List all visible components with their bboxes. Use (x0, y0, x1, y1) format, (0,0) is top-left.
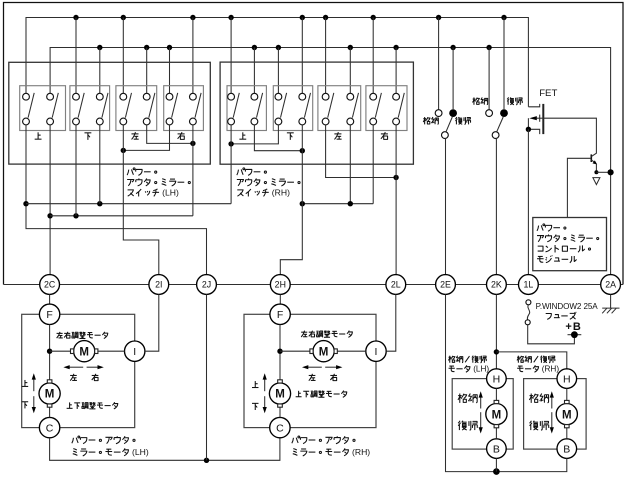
svg-text:M: M (319, 346, 329, 358)
junction bus1 (73, 15, 78, 20)
svg-text:FET: FET (539, 88, 557, 99)
label migi RH motor (330, 374, 337, 381)
junction 2A line (608, 169, 614, 175)
svg-text:F: F (277, 309, 283, 321)
pin F LH (39, 304, 59, 324)
caption switch RH line2 (237, 178, 300, 186)
wire bus1 drop (301, 18, 303, 94)
svg-text:H: H (493, 373, 501, 385)
caption switch RH line1 (237, 168, 267, 176)
junction F-M1 (47, 349, 52, 354)
label sayuu-chousei LH (57, 332, 108, 339)
fuse P.WINDOW2 25A (525, 300, 574, 344)
arrow fold up RH (550, 391, 554, 408)
junction emitter (594, 170, 598, 174)
label module line1 (537, 224, 566, 231)
svg-text:M: M (45, 389, 55, 401)
wire F to C inner (49, 325, 51, 383)
junction bus2 (348, 45, 353, 50)
wire bus2 (50, 48, 611, 275)
arrow up RH (263, 373, 267, 391)
wire bus1 drop (192, 18, 194, 94)
connector 2E (436, 275, 456, 295)
wire F to C inner RH (279, 325, 281, 383)
svg-text:2I: 2I (155, 280, 162, 290)
label shita LH (84, 133, 91, 140)
wire RH down-right to 2H (280, 125, 302, 275)
label hidari RH motor (309, 374, 316, 381)
junction H1 downright (97, 201, 102, 206)
wire bus2 drop 2E-fukki (452, 48, 454, 110)
caption switch LH line3 (128, 187, 179, 197)
label module line3 (538, 245, 591, 252)
label kakunou 2K (472, 97, 487, 104)
ground chassis 2A (602, 294, 619, 313)
wire RH left-left jog to 2L (326, 125, 397, 178)
connector 2A (601, 275, 621, 295)
wire to M1 left RH (280, 350, 313, 352)
pin I RH (366, 341, 386, 361)
wire emitter to 2A line (596, 171, 610, 173)
arrow right RH (325, 365, 342, 369)
fold motor box LH (452, 379, 513, 450)
wire H1b (302, 203, 373, 205)
wire C common (50, 438, 280, 460)
svg-text:P.WINDOW2 25A: P.WINDOW2 25A (536, 302, 599, 311)
arrow left RH (302, 365, 322, 369)
switch S2 LH-down (73, 93, 108, 125)
pin I LH (125, 341, 145, 361)
svg-text:2L: 2L (391, 280, 401, 290)
switch S1 LH-up (23, 93, 59, 125)
junction fold H (494, 349, 499, 354)
wire bus1 drop 2E-kakunou (438, 18, 440, 110)
label jouge-chousei RH (296, 391, 347, 398)
svg-text:2H: 2H (275, 280, 286, 290)
pin C LH (39, 417, 59, 437)
label fukki fold RH (530, 421, 549, 430)
svg-text:B: B (493, 443, 500, 455)
label ue LH (35, 132, 42, 139)
switch fold-2K contacts (486, 109, 508, 138)
wire bus2 drop (146, 48, 148, 94)
switch S4 LH-right (166, 93, 201, 125)
label jouge-chousei LH (67, 402, 118, 409)
outer border frame (4, 3, 624, 285)
transistor Q2 (567, 151, 597, 218)
junction FET source (526, 127, 531, 132)
junction bus2 (276, 45, 281, 50)
label ue RH (239, 132, 246, 139)
wire M to B fold RH (566, 428, 568, 439)
svg-text:C: C (276, 422, 284, 434)
motor M4 RH fold (556, 400, 577, 427)
wire H to M fold LH (495, 388, 497, 400)
caption switch LH line1 (127, 168, 157, 176)
label kakunou fold RH (529, 394, 548, 403)
caption switch RH line3 (237, 187, 290, 197)
wire to M1 left (50, 350, 74, 352)
fold motor box RH (524, 379, 587, 450)
switch box RH-left (318, 86, 361, 131)
pin B RH fold (557, 439, 577, 459)
arrow up LH (32, 373, 36, 391)
wire 2K down (495, 294, 497, 369)
switch S3 LH-left (120, 93, 155, 125)
label shita RH (287, 133, 294, 140)
wire 2K drop (495, 139, 498, 275)
label hidari LH (131, 132, 138, 139)
svg-text:2E: 2E (440, 280, 451, 290)
wire FET source to 1L (527, 129, 529, 274)
junction F-M1 RH (277, 349, 282, 354)
wire B common (446, 294, 567, 471)
label migi LH (178, 132, 185, 139)
pin F RH (270, 304, 290, 324)
connector 1L (519, 275, 539, 295)
wire bus2 drop (349, 48, 351, 94)
label migi LH motor (92, 374, 99, 381)
junction bus1 (371, 15, 376, 20)
label ue RH motor (252, 381, 258, 387)
wire RH right-right to 2L (395, 125, 397, 275)
svg-text:2C: 2C (44, 280, 56, 290)
motor M1 RH (L/R adjust) (310, 341, 337, 362)
wire M2 to C inner (49, 404, 51, 417)
junction bus2 (486, 45, 491, 50)
wire LH left-left to 2I (123, 125, 159, 275)
wire H to M fold RH (566, 388, 568, 400)
pin B LH fold (487, 439, 507, 459)
wire 2I down to I (145, 294, 159, 351)
arrow fold down LH (479, 412, 483, 433)
junction bus1 (228, 15, 233, 20)
svg-text:(LH): (LH) (473, 364, 489, 373)
connector 2J (197, 275, 217, 295)
wire 2H to F (279, 294, 281, 304)
arrow down LH (32, 396, 36, 413)
connector 2K (487, 275, 507, 295)
mirror motor box LH (22, 314, 135, 427)
label hidari LH motor (70, 374, 77, 381)
junction H1b leftright (348, 201, 353, 206)
label fukki 2E (455, 117, 470, 124)
junction LH jog (190, 141, 195, 146)
switch box RH-down (273, 86, 312, 131)
wire M1 right to I (98, 350, 125, 352)
svg-text:1L: 1L (524, 280, 534, 290)
svg-text:M: M (562, 409, 572, 421)
motor M2 LH (U/D adjust) (39, 380, 60, 407)
wire 2L down to I (386, 294, 396, 351)
wire H1 (26, 203, 231, 205)
svg-text:I: I (133, 346, 136, 358)
svg-text:H: H (563, 373, 571, 385)
switch box LH-left (116, 86, 157, 131)
svg-text:(LH): (LH) (132, 447, 149, 457)
motor M2 RH (U/D adjust) (269, 380, 290, 407)
label ue LH motor (22, 380, 28, 386)
junction 2J common (204, 458, 209, 463)
caption motor RH line2 (293, 447, 371, 457)
switch box RH-up (227, 86, 266, 131)
wire LH down-left drop (75, 125, 77, 216)
label hidari RH (334, 132, 341, 139)
pin H RH fold (557, 369, 577, 389)
junction RH jog (300, 148, 305, 153)
svg-text:(RH): (RH) (542, 364, 560, 373)
wire bus1 drop (75, 18, 77, 94)
svg-text:F: F (46, 309, 52, 321)
motor M1 LH (L/R adjust) (71, 341, 98, 362)
caption switch LH line2 (127, 178, 190, 186)
wire bus2 drop (99, 48, 101, 94)
switch S6 RH-down (275, 93, 311, 125)
connector 2C (40, 275, 60, 295)
junction bus2 (167, 45, 172, 50)
wire connector row (4, 284, 624, 286)
arrow right LH (87, 365, 104, 369)
wire H2 (50, 215, 193, 217)
label kakunou fold LH (458, 394, 477, 403)
label fold RH line2 (517, 364, 559, 373)
junction bus2 (252, 45, 257, 50)
junction H2 left (47, 213, 52, 218)
label module line4 (537, 255, 577, 262)
svg-text:C: C (46, 422, 54, 434)
wire 2C to F (49, 294, 51, 304)
label module line2 (537, 235, 599, 242)
caption motor LH line1 (72, 436, 135, 444)
wire RH down-up jog (231, 125, 278, 144)
svg-text:2J: 2J (202, 280, 211, 290)
junction H2 downleft (73, 213, 78, 218)
junction LH jog2 (121, 148, 126, 153)
junction bus1 (121, 15, 126, 20)
wire node-H1 to 2J (26, 125, 207, 275)
svg-text:I: I (375, 346, 378, 358)
transistor FET Q1 (528, 88, 596, 151)
wire bus1 drop (230, 18, 232, 94)
switch S7 RH-left (322, 93, 358, 125)
svg-text:(LH): (LH) (162, 187, 179, 197)
wire 2J down (206, 294, 208, 460)
label fold RH line1 (517, 356, 555, 363)
switch box RH-right (366, 86, 407, 131)
switch box LH-down (70, 86, 110, 131)
wire bus2 drop (253, 48, 255, 94)
label migi RH (381, 132, 388, 139)
wire M1 right to I RH (337, 350, 365, 352)
pin C RH (270, 417, 290, 437)
junction bus2 (450, 45, 455, 50)
arrow left LH (63, 365, 83, 369)
svg-text:(RH): (RH) (352, 447, 370, 457)
wire M to B fold LH (495, 428, 497, 439)
wire RH up-down jog (254, 125, 302, 151)
wire LH right-left jog (123, 125, 169, 150)
label shita RH motor (252, 403, 258, 410)
junction H1b (300, 201, 305, 206)
junction bus2 (97, 45, 102, 50)
switch box LH-right (164, 86, 204, 131)
switch S5 RH-up (228, 93, 263, 125)
wire LH down-right drop (99, 125, 101, 204)
switch box LH-up (20, 86, 66, 131)
junction 2L jog (393, 175, 398, 180)
power +B terminal (568, 331, 582, 338)
switch fold-2E contacts (435, 109, 457, 138)
svg-text:M: M (275, 389, 285, 401)
pin H LH fold (487, 369, 507, 389)
label fukki fold LH (458, 421, 477, 430)
junction bus1 (323, 15, 328, 20)
junction RH jog2 (228, 141, 233, 146)
junction B LH (493, 468, 500, 475)
wire LH left-right jog (147, 125, 193, 143)
switch assembly box RH (220, 62, 413, 164)
svg-text:+B: +B (565, 321, 581, 333)
wire bus1 drop 2K-fukki (503, 18, 505, 110)
svg-text:(RH): (RH) (272, 187, 290, 197)
connector 2I (149, 275, 169, 295)
label sayuu-chousei RH (301, 331, 352, 338)
junction H1 left (23, 201, 28, 206)
svg-text:B: B (563, 443, 570, 455)
label kakunou 2E (423, 117, 438, 124)
junction bus2 (144, 45, 149, 50)
switch assembly box LH (9, 62, 211, 164)
wire RH up-left drop (230, 125, 232, 204)
wire bus1 (26, 18, 528, 107)
junction bus1 (190, 15, 195, 20)
label fold LH line2 (449, 364, 490, 373)
connector 2H (270, 275, 290, 295)
svg-text:M: M (492, 409, 502, 421)
label shita LH motor (22, 402, 28, 409)
svg-text:2A: 2A (605, 280, 616, 290)
wire bus1 drop (325, 18, 327, 94)
svg-text:2K: 2K (491, 280, 502, 290)
wire bus1 drop (122, 18, 124, 94)
wire M2 to C inner RH (279, 404, 281, 417)
junction bus2 (393, 45, 398, 50)
connector 2L (386, 275, 406, 295)
switch S8 RH-right (370, 93, 404, 125)
wire bus2 drop (277, 48, 279, 94)
control module U1 box (533, 218, 607, 271)
wire LH up-right to 2C (49, 125, 51, 275)
label fukki 2K (507, 97, 522, 104)
wire 2E drop (444, 139, 447, 275)
wire RH right-left drop (372, 125, 374, 204)
arrow fold down RH (550, 412, 554, 433)
wire fold H branch RH (496, 352, 566, 369)
wire bus2 drop (395, 48, 397, 94)
wire RH left-right drop (349, 125, 351, 204)
wire bus2 drop 2K-kakunou (488, 48, 490, 110)
wire LH right-right drop (192, 125, 194, 216)
motor M3 LH fold (486, 400, 507, 427)
arrow fold up LH (479, 391, 483, 408)
junction bus1 (436, 15, 441, 20)
ground signal triangle (593, 178, 600, 185)
mirror motor box RH (244, 314, 376, 427)
label fold LH line1 (448, 356, 486, 363)
wire B LH drop (495, 458, 497, 471)
caption motor LH line2 (73, 447, 149, 457)
wire bus1 drop (372, 18, 374, 94)
arrow down RH (263, 396, 267, 413)
caption motor RH line1 (292, 436, 355, 444)
junction bus1 (501, 15, 506, 20)
wire bus2 drop (169, 48, 171, 94)
svg-text:M: M (79, 346, 89, 358)
junction bus1 (300, 15, 305, 20)
label fuse (546, 312, 577, 319)
